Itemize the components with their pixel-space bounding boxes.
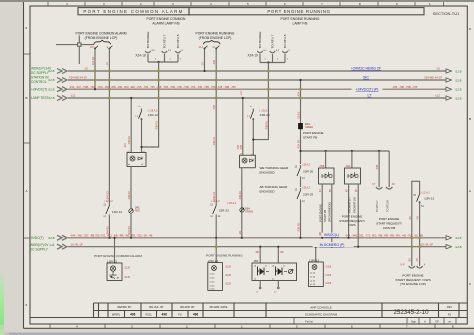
wire lamp-test feed into 13H-12 box [128, 97, 132, 153]
svg-text:TO BRIDGE: TO BRIDGE [146, 32, 150, 49]
svg-text:TO RTU 8: TO RTU 8 [283, 34, 287, 48]
pair B stub to bus1 [201, 49, 205, 73]
svg-text:(FROM BRIDGE): (FROM BRIDGE) [328, 202, 332, 222]
svg-text:Ngo: Ngo [411, 320, 416, 324]
svg-text:-X24 RD: -X24 RD [298, 140, 301, 149]
lamp 23H-23 indicator box [240, 155, 256, 168]
F/B group1 lamp feed drop [142, 62, 160, 147]
caption PORT ENGINE START REQUEST / CWS (TO ENGINE LCP) [395, 274, 430, 287]
svg-text:PORT ENGINE: PORT ENGINE [319, 204, 323, 222]
svg-text:TO RTU 7: TO RTU 7 [163, 34, 167, 48]
relay coil 23R-23 [208, 238, 231, 291]
svg-text:X24-18: X24-18 [135, 54, 146, 58]
svg-text:-X24: -X24 [298, 91, 301, 97]
relay coil 13R-13 [309, 246, 332, 287]
svg-text:/12.B: /12.B [225, 266, 231, 269]
svg-text:RD APR. BY: RD APR. BY [180, 305, 195, 309]
svg-text:496: 496 [130, 312, 136, 316]
svg-text:/ 12.A.2: / 12.A.2 [104, 200, 113, 203]
LED 184 GREEN square (start FB) [298, 122, 313, 129]
svg-text:SECTION-TU1: SECTION-TU1 [433, 11, 460, 16]
svg-text:-705 RD: -705 RD [128, 191, 131, 200]
connector pair B (engine running from LCP) [199, 40, 221, 49]
svg-text:+24VDC(T) (P): +24VDC(T) (P) [356, 88, 379, 92]
svg-text:-344 RD: -344 RD [106, 191, 109, 200]
wire: alarm lamp circuit from LCP down to coil area [106, 49, 110, 239]
label AB TURNING GEAR ENGAGED [260, 185, 289, 194]
zone ticks left [24, 54, 31, 238]
F/B stub group 1: TO BRIDGE / TO RTU 7 / TO RTU 8 [135, 32, 183, 64]
label PORT ENGINE COMMON ALARM (FROM ENGINE LCP) [76, 31, 127, 40]
bus 0VDC (bottom bus 5) [31, 233, 462, 240]
svg-text:-L12: -L12 [70, 94, 76, 98]
svg-text:-705: -705 [237, 145, 240, 150]
label WE TURNING GEAR ENGAGED [260, 166, 289, 175]
svg-text:TO RTU 8: TO RTU 8 [385, 200, 389, 212]
rotated label FROM RTU 7 / FROM RTU 8 [348, 197, 357, 213]
svg-text:13R-12: 13R-12 [112, 210, 122, 214]
svg-text:DC SUPPLY: DC SUPPLY [31, 71, 50, 75]
bus +24VDC(T) (top bus 3) [31, 85, 462, 92]
svg-text:/12.B: /12.B [326, 274, 332, 277]
svg-text:x1: x1 [254, 279, 256, 281]
svg-text:RD CHL. BY: RD CHL. BY [149, 305, 164, 309]
svg-text:241: 241 [135, 205, 140, 209]
svg-text:-4B: -4B [416, 258, 419, 262]
svg-text:-10,-RL-1P: -10,-RL-1P [70, 242, 83, 246]
svg-text:/ 12.A.2: / 12.A.2 [211, 200, 220, 203]
svg-text:REPRD. BY: REPRD. BY [118, 305, 132, 309]
svg-text:B: B [469, 117, 471, 121]
svg-text:/12.B: /12.B [225, 283, 231, 286]
svg-text:/12.B: /12.B [225, 274, 231, 277]
svg-text:/12.B: /12.B [326, 282, 332, 285]
caption PORT ENGINE START REQUEST/ CWS [339, 215, 365, 228]
zone letters right [469, 27, 471, 286]
svg-text:-705 RD: -705 RD [128, 136, 131, 145]
contact 23R-29 [295, 187, 314, 233]
svg-text:WPSPL: WPSPL [112, 313, 121, 316]
svg-text:-344, -346, -357, -RB 705,-701: -344, -346, -357, -RB 705,-701, -RO, -RB… [70, 233, 153, 237]
svg-text:IN DCMERG (P): IN DCMERG (P) [320, 243, 345, 247]
contact 13R-12 (lamp feedback) [135, 105, 158, 153]
svg-text:PORT ENGINE COMMON ALARM: PORT ENGINE COMMON ALARM [94, 254, 142, 258]
contact 23R-23 (lower, on LCP running wire) [210, 200, 229, 218]
svg-text:/12.B: /12.B [455, 69, 462, 73]
svg-text:PORT ENGINE RUNNING: PORT ENGINE RUNNING [267, 9, 330, 14]
svg-text:-10: -10 [84, 67, 88, 71]
svg-text:/12.B: /12.B [48, 87, 55, 91]
svg-text:A: A [26, 189, 28, 193]
svg-text:/12.B: /12.B [124, 267, 130, 270]
svg-text:PORT ENGINE COMMON ALARM: PORT ENGINE COMMON ALARM [83, 9, 183, 14]
label PORT ENGINE RUNNING LAMP F/B [281, 17, 320, 25]
svg-text:CWS: CWS [349, 223, 356, 227]
svg-text:LAMP TEST: LAMP TEST [31, 96, 49, 100]
svg-text:X24-WD-X4-1P: X24-WD-X4-1P [424, 76, 442, 80]
svg-text:+24VDC(T): +24VDC(T) [31, 87, 47, 91]
svg-text:184: 184 [245, 206, 250, 210]
svg-text:GREEN: GREEN [305, 127, 314, 129]
caption PORT ENGINE START REQUEST/ CWS F/B [376, 217, 402, 230]
svg-text:CWS F/B: CWS F/B [383, 226, 396, 230]
relay coil 13R-12 [107, 237, 130, 281]
F/B stub group 2: TO BRIDGE / TO RTU 7 / TO RTU 8 [248, 32, 291, 64]
svg-text:/12.B: /12.B [326, 266, 332, 269]
label PORT ENGINE START FB [303, 131, 324, 140]
svg-text:23R-23: 23R-23 [219, 209, 229, 213]
label PORT ENGINE RUNNING (FROM ENGINE LCP) [196, 31, 235, 40]
svg-text:0VDC(T): 0VDC(T) [31, 236, 44, 240]
feeder wire to interface relays [299, 150, 389, 152]
net label +24VDC(T)(P) [352, 87, 383, 92]
bus LAMP TEST (top bus 4) [31, 93, 462, 100]
net label IN DCMERG (P) [313, 242, 354, 247]
svg-text:23R-19: 23R-19 [213, 191, 216, 200]
svg-text:/12.B: /12.B [48, 78, 55, 82]
svg-text:/12.B: /12.B [48, 69, 55, 73]
svg-text:X24-WD-X4-1P: X24-WD-X4-1P [69, 76, 87, 80]
outer border bottom line [24, 327, 474, 329]
svg-text:SIC: SIC [363, 75, 369, 79]
svg-text:-705: -705 [240, 145, 243, 150]
column start FB (x=300.5) [298, 79, 302, 239]
svg-text:-708 RD: -708 RD [265, 121, 268, 130]
bottom row of title block [294, 318, 456, 325]
svg-text:TO RTU 7: TO RTU 7 [375, 200, 379, 212]
contact 23R-26 [295, 164, 314, 181]
off-page connector cross X [56, 36, 94, 65]
contact 13R-13 column to LCP [401, 181, 435, 268]
svg-text:184: 184 [305, 122, 310, 126]
svg-text:X24-19: X24-19 [248, 54, 259, 58]
rotated label PORT ENGINE START FB (FROM BRIDGE) [319, 202, 332, 222]
zone ticks top [48, 2, 444, 6]
svg-text:Fst list: Fst list [305, 320, 313, 324]
LED 241 RED (alarm lamp column) [129, 205, 140, 213]
svg-text:RED: RED [135, 211, 140, 213]
svg-text:23R-19: 23R-19 [213, 136, 216, 145]
svg-text:AHP CONSOLE: AHP CONSOLE [310, 305, 332, 309]
svg-text:344-RD: 344-RD [92, 56, 95, 65]
svg-text:252345-2-10: 252345-2-10 [393, 309, 429, 316]
svg-text:/12.B: /12.B [455, 245, 462, 249]
svg-text:DC SUPPLY: DC SUPPLY [30, 248, 49, 252]
svg-text:OF: OF [435, 320, 439, 324]
svg-text:-RD: -RD [280, 252, 284, 254]
svg-text:-708 RD: -708 RD [239, 191, 242, 200]
LED 184 GREEN (on 23R-23 column) [227, 202, 254, 214]
svg-text:-RD: -RD [255, 252, 259, 254]
svg-text:13R-13: 13R-13 [424, 197, 434, 201]
svg-text:TO RTU 8: TO RTU 8 [176, 34, 180, 48]
svg-text:TO BRIDGE: TO BRIDGE [258, 32, 262, 49]
svg-text:23R-23: 23R-23 [260, 113, 270, 117]
contact 23R-23 (lamp feedback) [247, 105, 270, 155]
svg-text:184: 184 [254, 259, 259, 263]
svg-text:-L12: -L12 [435, 94, 441, 98]
svg-text:ENGAGED: ENGAGED [260, 190, 276, 194]
wire: common alarm signal from LCP to +24VDC(T) bus [92, 49, 96, 91]
svg-text:-705: -705 [213, 60, 216, 65]
svg-text:PORT ENGINE: PORT ENGINE [303, 131, 324, 135]
svg-text:( / 12.A.2: ( / 12.A.2 [420, 191, 430, 194]
svg-text:-7RA: -7RA [345, 165, 351, 168]
wire lamp-test feed into 23H-23 box [240, 91, 244, 156]
long wire pair B down [213, 49, 217, 239]
svg-text:-10,-34,-1P: -10,-34,-1P [420, 242, 433, 246]
svg-text:-10: -10 [436, 67, 440, 71]
label PORT ENGINE COMMON ALARM LAMP F/B [147, 17, 187, 25]
lamp 13H-12 indicator box [127, 153, 146, 167]
svg-text:-70B RD: -70B RD [298, 223, 301, 232]
zone ticks bottom [50, 324, 435, 328]
svg-text:/ 25.A.2: / 25.A.2 [302, 187, 311, 190]
svg-text:+24VDC HERG 2F: +24VDC HERG 2F [351, 66, 382, 70]
interface module box (running lamps) [252, 246, 297, 294]
contact 13R-13 [419, 191, 421, 194]
svg-text:ENGAGED: ENGAGED [260, 170, 276, 174]
svg-text:/12.B: /12.B [455, 236, 462, 240]
svg-text:/12.B: /12.B [455, 88, 462, 92]
outer border left line [23, 2, 25, 328]
svg-text:( / 25.A.2: ( / 25.A.2 [259, 109, 269, 112]
svg-text:/12.B: /12.B [455, 96, 462, 100]
svg-text:x1: x1 [272, 279, 274, 281]
svg-text:FROM RTU 8: FROM RTU 8 [353, 197, 357, 213]
svg-text:REV: REV [447, 306, 452, 309]
bus +24VDC supply (top bus 1) [31, 66, 462, 75]
svg-text:/12.B: /12.B [48, 236, 55, 240]
svg-text:FROM RTU 7: FROM RTU 7 [348, 197, 352, 213]
svg-text:13R-12: 13R-12 [148, 113, 158, 117]
svg-text:GREEN: GREEN [245, 212, 254, 214]
svg-text:INSOC(L): INSOC(L) [324, 233, 339, 237]
header box PORT ENGINE RUNNING [189, 8, 424, 15]
svg-text:-RD: -RD [239, 230, 242, 235]
svg-text:11.4: 11.4 [199, 46, 204, 49]
svg-text:(FROM ENGINE LCP): (FROM ENGINE LCP) [199, 36, 232, 40]
net label INSOC(L) [322, 233, 341, 238]
svg-text:-705, -708, -70B, -705: -705, -708, -70B, -705 [392, 85, 418, 89]
svg-text:START FB: START FB [303, 136, 317, 140]
svg-text:(FROM ENGINE LCP): (FROM ENGINE LCP) [85, 36, 118, 40]
svg-text:START FB: START FB [323, 209, 327, 222]
svg-text:TO RTU 7: TO RTU 7 [271, 34, 275, 48]
svg-text:-L12: -L12 [240, 91, 243, 96]
svg-text:RD APR. DATE: RD APR. DATE [210, 305, 228, 309]
svg-text:/12.B: /12.B [124, 276, 130, 279]
header box PORT ENGINE COMMON ALARM [78, 8, 189, 15]
svg-text:LAMP F/B: LAMP F/B [293, 21, 309, 25]
interface relay box 1 (start FB from bridge) [319, 151, 335, 248]
svg-text:AB TURNING GEAR: AB TURNING GEAR [260, 185, 289, 189]
svg-text:PORT ENGINE RUNNING: PORT ENGINE RUNNING [196, 31, 235, 35]
svg-text:/25.6.2: /25.6.2 [298, 111, 301, 119]
svg-text:-705 RD: -705 RD [156, 121, 159, 130]
F/B group2 lamp feed drop [253, 63, 269, 140]
svg-text:SCHEMATIC DIAGRAM: SCHEMATIC DIAGRAM [305, 313, 338, 317]
connector pair A (common alarm from LCP) [90, 40, 112, 49]
svg-text:23R-29: 23R-29 [303, 193, 313, 197]
svg-text:-7RB: -7RB [319, 166, 325, 168]
svg-text:(TO ENGINE LCP): (TO ENGINE LCP) [400, 282, 426, 286]
svg-text:-70B: -70B [376, 165, 379, 170]
svg-text:B: B [26, 96, 28, 100]
svg-text:496: 496 [193, 312, 199, 316]
svg-text:-344 RD: -344 RD [128, 226, 131, 235]
TO RTU 7 / TO RTU 8 socket stubs [372, 151, 395, 212]
svg-text:/12.B: /12.B [48, 96, 55, 100]
bus WDR(LP) 0V (bottom bus 6) [30, 242, 462, 251]
svg-text:-344: -344 [124, 143, 127, 148]
svg-text:PGCL: PGCL [145, 313, 152, 316]
svg-text:/12.B: /12.B [455, 78, 462, 82]
title block [30, 303, 467, 324]
svg-text:PORT ENGINE RUNNING: PORT ENGINE RUNNING [206, 253, 243, 257]
svg-text:-4B: -4B [417, 216, 420, 220]
svg-text:WE TURNING GEAR: WE TURNING GEAR [260, 166, 289, 170]
svg-text:WDR(LP) 0V -LA: WDR(LP) 0V -LA [30, 243, 55, 247]
svg-text:K-P: K-P [401, 265, 405, 267]
svg-text:CONTROL: CONTROL [31, 80, 47, 84]
contact 13R-12 (alarm lamp drive) [103, 200, 122, 218]
svg-text:PORT ENGINE COMMON ALARM: PORT ENGINE COMMON ALARM [76, 31, 127, 35]
svg-text:-344 RD: -344 RD [106, 226, 109, 235]
bus STATION IN CONTROL (top bus 2) [31, 75, 462, 84]
svg-text:-344, -347, -7RB, -7RA, -7RA,: -344, -347, -7RB, -7RA, -7RA, -RW, -RW, … [69, 85, 236, 89]
svg-text:( / 25.A.2: ( / 25.A.2 [148, 109, 158, 112]
svg-text:( /25.A.2: ( /25.A.2 [227, 202, 237, 205]
svg-text:PG: PG [178, 313, 182, 316]
svg-text:/ 25.A.2: / 25.A.2 [302, 164, 311, 167]
svg-text:-705: -705 [213, 105, 216, 110]
interface relay box 2 (from RTU) [345, 151, 361, 248]
svg-text:ALARM LAMP F/B: ALARM LAMP F/B [152, 21, 180, 25]
svg-text:496: 496 [162, 312, 168, 316]
svg-text:23R-26: 23R-26 [303, 170, 313, 174]
